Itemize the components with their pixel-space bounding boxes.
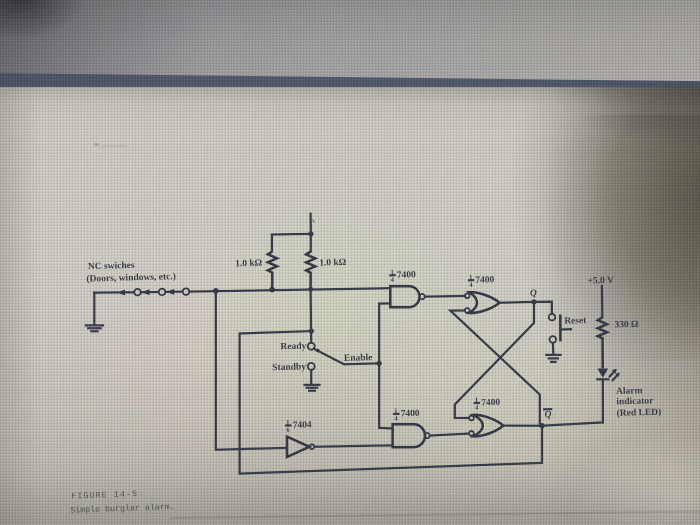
wire: Q to reset switch	[534, 302, 552, 314]
ground (left, NC switch chain)	[86, 293, 103, 332]
wire: U1c output to U1d lower input	[430, 434, 469, 436]
inverter U2 (1/6 7404)	[287, 437, 314, 457]
nand gate U1b as negative-OR (1/4 7400)	[465, 292, 500, 313]
navy bar	[0, 73, 700, 96]
wire: U1b lower input from cross wire	[450, 311, 540, 426]
wire: G1 lower input stub	[379, 302, 390, 304]
caption: FIGURE 14-5	[70, 488, 175, 516]
label 1/4 7400 (U1a)	[390, 269, 416, 284]
label Qbar	[544, 409, 552, 420]
node: junction feedback / ready column	[309, 328, 314, 333]
tick near stub top	[313, 220, 315, 223]
label 1/4 7400 (U1d)	[475, 396, 501, 411]
wire: branch down to inverter input	[216, 291, 287, 450]
wire: U1d output to node Qbar	[503, 424, 542, 426]
node: resistor top junction	[308, 231, 313, 236]
nand gate U1d as negative-OR (1/4 7400, lower latch)	[469, 415, 503, 437]
ground (reset)	[546, 355, 560, 362]
resistor R2 1.0k zigzag + stems	[306, 234, 315, 289]
switch: Ready terminal	[308, 343, 315, 350]
wire: main NC switch line	[94, 288, 390, 293]
nand gate U1c (1/4 7400, bottom left)	[393, 424, 430, 447]
ground (standby)	[305, 370, 320, 391]
resistor R3 330 ohm	[598, 317, 607, 368]
wire: cross-couple from Q down to U1d top input	[455, 302, 534, 418]
label 1/4 7400 (U1c)	[394, 407, 420, 422]
wire: Ready column (down from main line)	[309, 289, 312, 342]
wire: feedback loop Qbar -> down -> left -> up -> ready node	[240, 331, 542, 474]
LED D1 (alarm indicator)	[597, 369, 620, 381]
label Alarm indicator (Red LED)	[616, 386, 661, 419]
NC switch S1 (arrow + terminal)	[117, 289, 141, 296]
node Q	[531, 299, 536, 304]
wire: inverter output to U1c lower input	[314, 445, 392, 446]
node: junction main line / resistor R2 column	[308, 287, 313, 292]
wire: enable vertical (G1 lower input to G3 top input)	[379, 304, 392, 429]
wire: U1b output to node Q	[500, 301, 534, 304]
node: junction main line / resistor R1	[269, 287, 275, 293]
switch blade + Enable wire	[314, 349, 379, 364]
node: junction main line / inverter branch	[213, 288, 219, 294]
label: NC swiches (Doors, windows, etc.)	[86, 261, 176, 285]
wire: top horizontal to R1	[272, 234, 311, 252]
label 1/4 7400 (U1b)	[469, 274, 495, 289]
nand gate U1a (1/4 7400)	[390, 286, 425, 307]
node Qbar	[539, 423, 544, 428]
wire: U1a output to U1b	[425, 295, 465, 298]
wire: reset lower terminal to ground	[552, 343, 555, 354]
switch: Reset push button	[549, 314, 571, 343]
resistor R1 1.0k zigzag	[268, 251, 277, 289]
NC switch S3	[166, 288, 189, 295]
wire: top stub above resistors	[309, 214, 312, 234]
NC switch S2	[141, 289, 165, 296]
switch: Standby terminal	[308, 363, 315, 370]
wire: +5V down to resistor	[601, 286, 604, 317]
label 1/6 7404 (U2)	[286, 419, 312, 434]
wire: LED cathode down and left to Qbar	[542, 380, 603, 425]
node: Enable junction on vertical	[376, 361, 381, 366]
